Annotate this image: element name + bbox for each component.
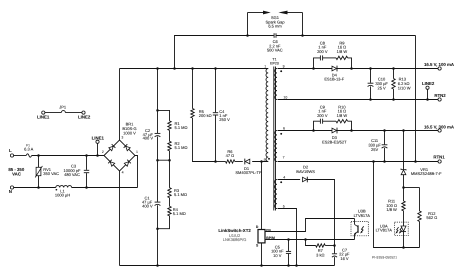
node snubber2 right [350,129,353,132]
wire C4 lower [215,115,217,161]
capacitor C1 [142,195,160,208]
svg-text:16.5 V, 300 mA: 16.5 V, 300 mA [424,125,455,130]
resistor R1 [168,121,188,131]
wire chain1 top [158,110,170,121]
wire gnd bus [120,265,335,267]
resistor R13 [392,69,411,100]
terminal LINE1 lower [92,135,105,155]
diode D4 [324,66,344,82]
pin 5 (T1) [283,204,285,208]
svg-text:LINE2: LINE2 [422,81,435,86]
resistor R12 [418,188,437,248]
transformer T1 label [270,58,279,66]
pin BP/M (U1) [266,236,275,240]
opto U3B box [351,209,370,236]
inductor L1 [55,186,72,198]
wire D1-pin3 [252,161,268,163]
svg-text:LINE2: LINE2 [78,114,91,119]
svg-text:LINE1: LINE1 [37,114,50,119]
wire clamp [216,161,226,163]
capacitor C6 [267,33,283,52]
svg-text:25V: 25V [371,147,378,152]
wire R12 top [404,187,420,189]
svg-text:5.1 MΩ: 5.1 MΩ [175,125,188,130]
wire BR1 plus [119,69,121,141]
terminal 16.5V 300mA [424,125,455,132]
svg-text:3 kΩ: 3 kΩ [316,252,324,257]
wire out2 left [278,130,333,132]
wire out1 left [278,68,333,70]
wire N rail left [14,187,56,189]
svg-text:16.5 V, 100 mA: 16.5 V, 100 mA [424,62,455,67]
IC U1 label [218,228,251,242]
wire C7 bottom [334,257,336,265]
svg-text:10 V: 10 V [273,253,282,258]
node C10 top [369,67,372,70]
svg-text:5.1 MΩ: 5.1 MΩ [174,192,187,197]
svg-text:47 Ω: 47 Ω [226,153,235,158]
bridge diode top-right [124,144,131,151]
svg-text:L: L [9,148,12,153]
svg-text:480 VAC: 480 VAC [64,172,80,177]
pin 4 (BR1) [122,170,124,174]
svg-text:7: 7 [283,156,285,160]
node R13 top [392,67,395,70]
svg-text:5.1 MΩ: 5.1 MΩ [173,211,186,216]
node C5 at bus [287,264,290,267]
terminal RTN2 [434,93,446,101]
node C4 top [214,67,217,70]
svg-text:1/8 W: 1/8 W [337,49,348,54]
opto U3A LED [395,226,406,234]
wire BP [265,239,355,241]
svg-text:RTN2: RTN2 [434,93,446,98]
capacitor C4 [213,109,230,122]
terminal RTN1 [433,155,445,163]
pin D (U1) [256,225,259,229]
pin 6 (T1) [283,127,285,131]
svg-text:1/8 W: 1/8 W [337,113,348,118]
resistor R6 [226,149,235,163]
node fb drop [372,160,375,163]
node VR1 tap [402,129,405,132]
svg-text:5: 5 [283,204,285,208]
pin 1 (T1) [264,64,266,68]
node LINE2 stub [426,98,429,101]
node bulk bottom tap [156,227,159,230]
node bulk mid tap [156,159,159,162]
svg-text:ES1B-13-F: ES1B-13-F [324,77,344,82]
wire out1 right [337,68,438,70]
wire fb return [374,162,420,248]
pin 4 (T1) [283,176,285,180]
bridge diode top-left [108,144,115,151]
wire DC+ rail [120,68,269,70]
wire pin5 [278,209,297,266]
svg-text:400 V: 400 V [142,204,153,209]
svg-text:LINE1: LINE1 [92,135,105,140]
pin 9 (T1) [283,64,285,68]
wire N loop to BR1 ac2 [135,156,138,188]
wire drain to D [261,162,263,230]
pin 2 (BR1) [102,150,104,154]
svg-text:MMSZ5248B-7-F: MMSZ5248B-7-F [411,171,442,176]
svg-text:RTN1: RTN1 [433,155,445,160]
node SG1 left [246,34,249,37]
capacitor C2 [143,128,161,141]
svg-text:200 kΩ: 200 kΩ [199,113,212,118]
wire D2 out [307,180,334,254]
pin 10 (T1) [283,96,287,100]
wire VR1-R11 [403,175,405,201]
svg-text:1: 1 [136,150,138,154]
secondary2 phase dot [280,133,282,135]
capacitor C7 [332,247,350,261]
pin 3 (BR1) [121,136,123,140]
svg-text:BAV19WS: BAV19WS [296,169,315,174]
svg-text:D: D [256,225,259,229]
title PI-9359-050521 [372,255,397,259]
wire RTN1 [278,161,439,163]
svg-text:PI-9359-050521: PI-9359-050521 [372,255,397,259]
opto U3B transistor [355,219,364,240]
terminal N [9,186,14,194]
snubber R10 [323,104,352,130]
node pin5 at bus [295,264,298,267]
diode D3 [322,128,347,145]
svg-text:SM4007PL-TP: SM4007PL-TP [235,170,262,175]
svg-text:5.1 MΩ: 5.1 MΩ [175,145,188,150]
svg-text:EP20: EP20 [270,61,279,65]
pin 1 (BR1) [136,150,138,154]
svg-text:9: 9 [283,64,285,68]
node RV1 bottom [37,186,40,189]
IC U1 box [258,230,265,243]
resistor R5 [191,109,212,119]
node R7 branch [304,238,307,241]
transformer T1 secondary 2 [275,131,277,162]
terminal LINE2 lower [422,81,435,99]
svg-text:JP1: JP1 [59,104,67,109]
jumper JP1 [42,104,85,114]
bridge diode bottom-left [108,160,115,167]
node fuse-RV1 [37,154,40,157]
wire R7 right [325,245,334,247]
capacitor C10 [368,69,389,100]
node bulk cap top [156,67,159,70]
svg-text:2: 2 [102,150,104,154]
wire N rail right [72,187,138,189]
svg-text:6: 6 [283,127,285,131]
wire C4 upper [215,69,217,113]
wire y-line drop [415,36,417,162]
capacitor C5 [271,240,291,266]
svg-text:16 V: 16 V [340,256,349,261]
node clamp-C4 [214,160,217,163]
node S at bus [260,264,263,267]
snubber C9 [314,104,328,130]
opto U3A LED box [376,222,409,236]
node snubber1 left [312,67,315,70]
svg-text:S: S [256,243,259,247]
svg-text:LTV817A: LTV817A [376,228,393,233]
wire R11-U3A [403,211,405,226]
node C11 top [383,129,386,132]
svg-text:3: 3 [263,158,265,162]
label LINE1 (JP1) [37,114,50,119]
wire RTN2 [278,99,439,101]
pin S (U1) [256,243,259,247]
svg-text:VAC: VAC [12,172,22,177]
node R12 branch [402,186,405,189]
wire bulk lower [157,205,159,265]
fuse F1 [14,143,34,157]
transformer T1 secondary 1 [275,69,277,100]
node C10 bottom [369,98,372,101]
node bulk top tap [156,109,159,112]
transformer T1 bias winding [275,180,277,209]
bridge BR1 frame [104,121,137,171]
label LINE2 (JP1) [78,114,91,119]
svg-text:6.3 A: 6.3 A [24,147,33,152]
svg-text:3: 3 [121,136,123,140]
diode D1 [235,159,262,175]
node SG1 right [301,34,304,37]
svg-text:1/10 W: 1/10 W [398,85,411,90]
wire VR1 upper [403,131,405,170]
resistor R4 [168,206,186,216]
wire BR1 minus [119,171,121,266]
wire R7 left [306,240,316,246]
zener VR1 [401,167,442,176]
node snubber2 left [312,129,315,132]
svg-text:25 V: 25 V [377,85,386,90]
wire L rail [32,155,104,157]
pin 3 (T1) [263,158,265,162]
svg-text:562 Ω: 562 Ω [426,215,437,220]
svg-text:1/8 W: 1/8 W [386,207,397,212]
node y-line tap [173,67,176,70]
wire R5 lower [193,118,216,162]
capacitor C3 [64,156,90,188]
terminal 16.5V 100mA [424,62,455,70]
svg-text:1000 V: 1000 V [123,131,136,136]
svg-text:200 V: 200 V [317,113,328,118]
svg-text:4: 4 [283,176,285,180]
svg-text:4: 4 [122,170,124,174]
svg-text:LTV817A: LTV817A [354,213,371,218]
spark gap SG1 [248,11,303,36]
svg-text:N: N [9,189,12,194]
node y-line at RTN1 [414,160,417,163]
node LED return [402,246,405,249]
svg-text:1000 µH: 1000 µH [55,193,70,198]
bridge diode bottom-right [124,160,131,167]
diode D2 [296,165,315,183]
label 85-350 VAC [8,167,25,177]
snubber R9 [323,40,352,68]
node R5 top [191,67,194,70]
pin FB (U1) [266,228,271,232]
wire y-line right [276,35,415,37]
capacitor C11 [368,131,387,162]
wire FB [265,219,355,232]
wire chain1 bottom [158,151,170,160]
wire R5 upper [192,69,194,109]
node drain [260,160,263,163]
wire R1-R2 [169,130,171,141]
svg-text:6.5 mm: 6.5 mm [268,24,282,29]
wire U3A cathode [403,232,405,248]
node LINE1 stub [96,154,99,157]
snubber C8 [314,40,328,68]
svg-text:LNK3696P/G: LNK3696P/G [223,237,247,242]
resistor R7 [316,244,326,258]
node chain mid [168,159,171,162]
resistor R3 [168,188,187,198]
wire S to bus [261,243,263,266]
wire R3-R4 [169,198,171,207]
node C11 bottom [383,160,386,163]
terminal L [9,148,14,157]
svg-text:200 V: 200 V [317,49,328,54]
transformer T1 primary [266,69,268,162]
node C5 tap [287,238,290,241]
pin 7 (T1) [283,156,285,160]
wire R6-D1 [235,161,243,163]
node C3 bottom [85,186,88,189]
bias phase dot [280,181,282,183]
node bias-R7 [333,244,336,247]
varistor RV1 [35,156,59,188]
transformer T1 core [274,67,276,211]
node bulk at bus [156,264,159,267]
secondary1 phase dot [280,70,282,72]
svg-text:ES2B-E3/52T: ES2B-E3/52T [322,139,347,144]
resistor R2 [168,141,188,151]
wire pin4 [278,179,301,181]
svg-text:400 V: 400 V [143,135,154,140]
svg-text:250 V: 250 V [219,117,230,122]
wire out2 right [337,130,438,132]
wire chain2 bottom [158,216,170,229]
wire y-line left [175,36,274,69]
primary phase dot [268,158,270,160]
svg-text:350 VAC: 350 VAC [43,171,59,176]
wire bulk mid [157,137,159,202]
node R13 bottom [392,98,395,101]
svg-text:1: 1 [264,64,266,68]
wire bulk upper [157,69,159,134]
wire chain2 top [169,160,171,188]
resistor R11 [386,199,405,212]
node snubber1 right [350,67,353,70]
node C3 top [85,154,88,157]
svg-text:500 VAC: 500 VAC [267,48,283,53]
